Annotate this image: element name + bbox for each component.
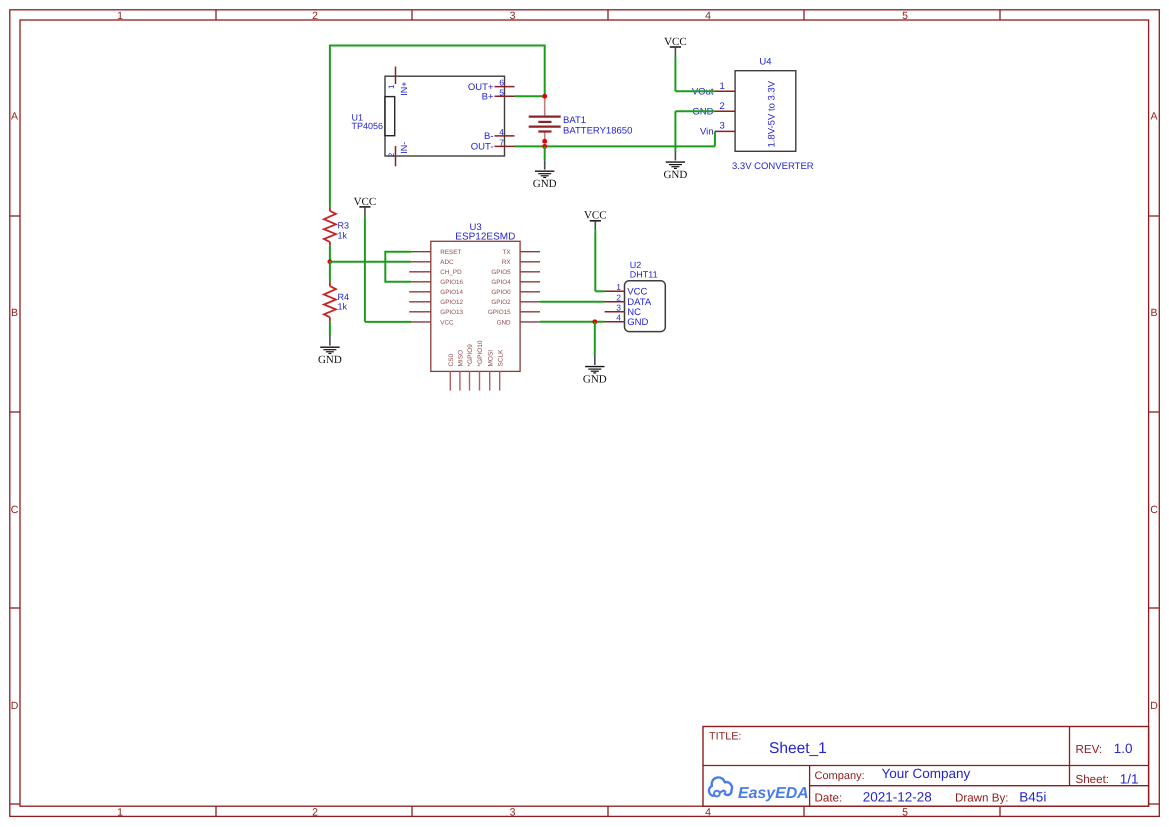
- svg-text:DHT11: DHT11: [630, 269, 658, 279]
- svg-text:VCC: VCC: [664, 36, 687, 48]
- svg-text:3: 3: [510, 807, 516, 819]
- svg-text:R4: R4: [338, 292, 350, 302]
- svg-text:VCC: VCC: [440, 319, 454, 326]
- svg-text:5: 5: [499, 87, 504, 97]
- svg-text:*GPIO9: *GPIO9: [467, 344, 474, 367]
- svg-text:2: 2: [312, 807, 318, 819]
- svg-text:GND: GND: [583, 373, 607, 385]
- svg-text:GPIO16: GPIO16: [440, 279, 463, 286]
- svg-text:2: 2: [616, 292, 621, 302]
- svg-text:CH_PD: CH_PD: [440, 269, 462, 276]
- svg-text:*GPIO10: *GPIO10: [477, 340, 484, 366]
- svg-text:TX: TX: [503, 249, 512, 256]
- svg-text:GPIO13: GPIO13: [440, 309, 463, 316]
- svg-text:GND: GND: [533, 178, 557, 190]
- svg-text:GPIO2: GPIO2: [491, 299, 511, 306]
- svg-text:VCC: VCC: [627, 287, 647, 298]
- svg-text:5: 5: [902, 10, 908, 22]
- svg-text:6: 6: [499, 78, 504, 88]
- svg-text:ESP12ESMD: ESP12ESMD: [455, 232, 515, 243]
- svg-text:Date:: Date:: [815, 791, 843, 804]
- svg-text:RESET: RESET: [440, 249, 461, 256]
- svg-text:MISO: MISO: [458, 350, 465, 367]
- svg-text:2021-12-28: 2021-12-28: [863, 790, 932, 805]
- svg-text:BATTERY18650: BATTERY18650: [563, 126, 632, 137]
- svg-text:1: 1: [387, 84, 396, 89]
- svg-text:IN+: IN+: [399, 82, 409, 96]
- svg-text:REV:: REV:: [1076, 743, 1103, 756]
- svg-text:OUT-: OUT-: [471, 142, 494, 153]
- svg-text:TP4056: TP4056: [352, 121, 384, 131]
- svg-text:GPIO0: GPIO0: [491, 289, 511, 296]
- svg-text:1.8V-5V to 3.3V: 1.8V-5V to 3.3V: [767, 80, 778, 147]
- svg-text:GND: GND: [627, 317, 648, 328]
- svg-text:GPIO4: GPIO4: [491, 279, 511, 286]
- svg-text:A: A: [1150, 110, 1157, 122]
- svg-text:U4: U4: [759, 57, 771, 68]
- svg-text:3: 3: [616, 302, 621, 312]
- svg-text:5: 5: [902, 807, 908, 819]
- svg-text:ADC: ADC: [440, 259, 454, 266]
- svg-text:2: 2: [387, 152, 396, 157]
- svg-text:GND: GND: [497, 319, 511, 326]
- svg-text:7: 7: [499, 138, 504, 148]
- svg-text:B+: B+: [482, 92, 494, 103]
- svg-text:A: A: [11, 110, 18, 122]
- svg-text:3: 3: [510, 10, 516, 22]
- svg-text:GPIO15: GPIO15: [488, 309, 511, 316]
- svg-text:Your Company: Your Company: [882, 766, 971, 781]
- svg-text:VCC: VCC: [354, 196, 377, 208]
- svg-text:2: 2: [312, 10, 318, 22]
- svg-text:1: 1: [117, 10, 123, 22]
- svg-text:GPIO14: GPIO14: [440, 289, 463, 296]
- svg-text:2: 2: [720, 101, 725, 112]
- svg-text:1k: 1k: [338, 230, 348, 240]
- svg-text:4: 4: [499, 127, 504, 137]
- svg-text:GND: GND: [318, 354, 342, 366]
- svg-text:B: B: [11, 307, 18, 319]
- svg-text:MOSI: MOSI: [487, 350, 494, 367]
- svg-text:BAT1: BAT1: [563, 115, 586, 126]
- svg-text:1: 1: [117, 807, 123, 819]
- svg-text:GND: GND: [663, 169, 687, 181]
- svg-text:B45i: B45i: [1019, 790, 1046, 805]
- svg-text:EasyEDA: EasyEDA: [738, 785, 809, 802]
- svg-text:Vin: Vin: [700, 127, 714, 138]
- svg-text:CS0: CS0: [448, 353, 455, 366]
- svg-text:3: 3: [720, 121, 725, 132]
- svg-text:Sheet:: Sheet:: [1076, 773, 1110, 786]
- svg-text:Sheet_1: Sheet_1: [769, 740, 827, 757]
- svg-text:1: 1: [720, 81, 725, 92]
- svg-text:4: 4: [705, 807, 711, 819]
- svg-text:D: D: [1150, 700, 1158, 712]
- svg-text:Company:: Company:: [815, 770, 865, 782]
- svg-text:1: 1: [616, 282, 621, 292]
- svg-text:IN-: IN-: [399, 142, 409, 154]
- svg-text:3.3V CONVERTER: 3.3V CONVERTER: [732, 161, 814, 172]
- svg-text:GPIO12: GPIO12: [440, 299, 463, 306]
- svg-text:C: C: [1150, 504, 1158, 516]
- svg-text:1/1: 1/1: [1120, 771, 1139, 786]
- svg-text:B-: B-: [484, 131, 494, 142]
- svg-text:C: C: [11, 504, 19, 516]
- svg-text:4: 4: [616, 312, 621, 322]
- svg-text:VCC: VCC: [584, 210, 607, 222]
- svg-text:1.0: 1.0: [1114, 741, 1133, 756]
- svg-text:Drawn By:: Drawn By:: [955, 791, 1008, 804]
- svg-text:B: B: [1150, 307, 1157, 319]
- svg-text:D: D: [11, 700, 19, 712]
- svg-text:4: 4: [705, 10, 711, 22]
- svg-text:SCLK: SCLK: [497, 349, 504, 367]
- svg-text:GPIO5: GPIO5: [491, 269, 511, 276]
- svg-text:1k: 1k: [338, 302, 348, 312]
- svg-text:TITLE:: TITLE:: [709, 731, 741, 743]
- svg-text:RX: RX: [502, 259, 512, 266]
- svg-text:R3: R3: [338, 221, 350, 231]
